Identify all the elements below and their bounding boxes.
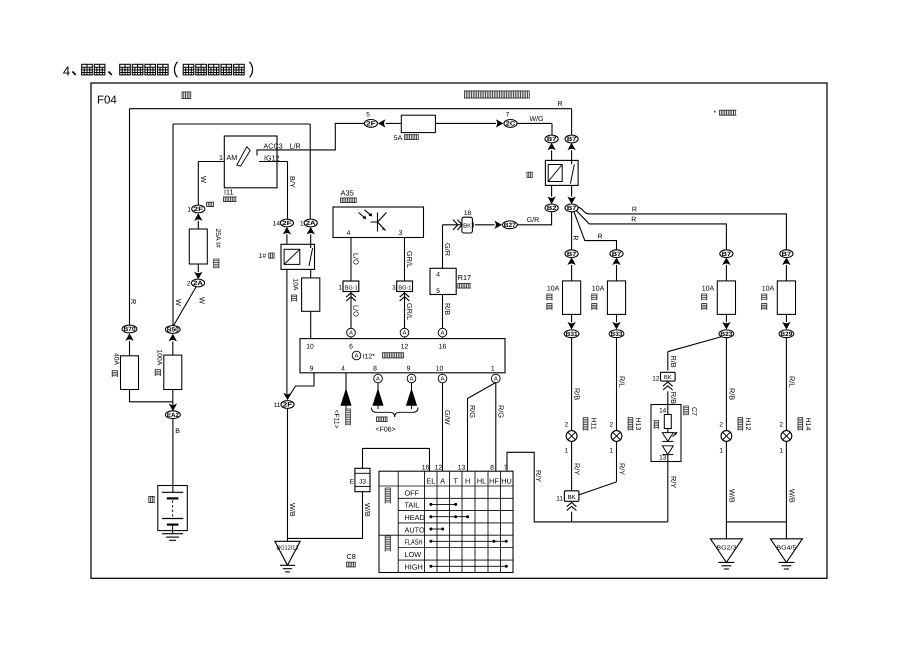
wire W loop top xyxy=(173,123,310,125)
svg-text:7: 7 xyxy=(504,464,508,471)
svg-text:G/R: G/R xyxy=(527,216,539,224)
light sensor A35 xyxy=(333,207,424,238)
joint connector 11 BK xyxy=(564,491,579,502)
svg-text:I11: I11 xyxy=(224,188,233,197)
wire col3 W/B to ground xyxy=(725,441,727,538)
svg-text:HU: HU xyxy=(501,476,512,485)
svg-text:2: 2 xyxy=(609,421,613,428)
joint connector 1 BG-1 left xyxy=(343,281,359,292)
headlamp bulb H11 xyxy=(566,431,577,442)
svg-text:100A: 100A xyxy=(155,350,162,366)
svg-text:R: R xyxy=(631,216,636,223)
svg-text:W/G: W/G xyxy=(530,115,544,123)
svg-text:11: 11 xyxy=(556,495,563,502)
connector B7 above fuse col x=726.4 xyxy=(720,250,733,258)
switch contact rows xyxy=(431,503,456,505)
wire 100A to EA2 xyxy=(172,390,174,405)
svg-text:R/L: R/L xyxy=(618,376,627,387)
headlamp bulb H13 xyxy=(611,431,622,442)
wire R/B to lamp H12 xyxy=(725,338,727,431)
svg-text:W/B: W/B xyxy=(288,503,297,517)
svg-text:2: 2 xyxy=(719,421,723,428)
wire ACC3 L/R to 5A fuse xyxy=(257,123,364,155)
svg-text:R/Y: R/Y xyxy=(573,463,582,475)
svg-text:A: A xyxy=(403,330,407,337)
ground below battery xyxy=(162,533,183,535)
svg-text:L/R: L/R xyxy=(290,142,301,151)
svg-text:R/B: R/B xyxy=(573,388,582,400)
connector EA2 xyxy=(166,411,181,419)
svg-text:W/B: W/B xyxy=(787,489,796,503)
svg-text:6: 6 xyxy=(349,344,353,351)
svg-text:9: 9 xyxy=(407,365,411,372)
svg-text:HIGH: HIGH xyxy=(405,563,423,572)
wire R/L to lamp H14 xyxy=(785,338,787,431)
svg-text:BG2/3: BG2/3 xyxy=(716,544,737,551)
wire col2 lamp R/Y to BK xyxy=(616,441,618,482)
wire R/B to lamp H11 xyxy=(571,338,573,431)
svg-text:1: 1 xyxy=(779,447,783,454)
connector B31 xyxy=(564,330,579,338)
svg-text:1#: 1# xyxy=(259,253,267,260)
circled A nodes above I12 xyxy=(347,328,356,337)
headlamp relay box xyxy=(545,160,578,185)
photo sensor symbol xyxy=(359,210,372,219)
label: power-source harness (tiny) xyxy=(182,92,191,100)
svg-text:1: 1 xyxy=(187,207,191,214)
svg-text:C7: C7 xyxy=(690,407,697,416)
svg-text:2A: 2A xyxy=(193,280,203,287)
svg-text:H11: H11 xyxy=(589,418,596,430)
svg-text:R: R xyxy=(597,233,602,240)
svg-text:EL: EL xyxy=(426,476,435,485)
wire C7 to R/Y bus xyxy=(667,462,669,522)
svg-text:12: 12 xyxy=(401,344,409,351)
wire E J3 W/B to ground xyxy=(288,492,363,539)
svg-text:R: R xyxy=(129,299,138,304)
svg-text:2: 2 xyxy=(187,281,191,288)
ground BG4/5 xyxy=(770,539,802,563)
connector 2 2A xyxy=(191,279,204,287)
svg-text:1: 1 xyxy=(719,447,723,454)
svg-text:4: 4 xyxy=(63,63,70,78)
connector B7 above fuse col x=616.5 xyxy=(610,250,623,258)
svg-text:F04: F04 xyxy=(97,95,117,107)
battery xyxy=(158,486,188,531)
svg-text:EA2: EA2 xyxy=(167,412,180,419)
svg-text:R/B: R/B xyxy=(669,392,678,404)
harness arrows F06 at I12 pins 8 9 xyxy=(377,383,379,390)
wire diagonal B23 to BK 12 xyxy=(668,337,722,352)
svg-text:HL: HL xyxy=(477,476,486,485)
svg-text:AM: AM xyxy=(227,153,238,162)
svg-text:10A: 10A xyxy=(292,279,299,292)
svg-text:BG12/13: BG12/13 xyxy=(277,545,300,552)
svg-text:1: 1 xyxy=(219,153,223,162)
wire R down to headlamp relay xyxy=(571,109,573,136)
svg-text:12: 12 xyxy=(652,375,660,382)
svg-text:G/W: G/W xyxy=(443,410,452,425)
svg-text:5: 5 xyxy=(366,112,370,119)
connector B29 xyxy=(779,330,794,338)
svg-text:W: W xyxy=(198,297,207,304)
wire W/B to ground BG12/13 xyxy=(287,409,289,542)
svg-text:9: 9 xyxy=(310,365,314,372)
fuse 25A I# xyxy=(189,229,207,264)
svg-text:R/Y: R/Y xyxy=(669,476,678,488)
svg-text:B7: B7 xyxy=(612,251,622,258)
label: instrument panel harness vs front harness (tiny) xyxy=(465,91,530,99)
svg-text:R/B: R/B xyxy=(669,356,678,368)
svg-text:J3: J3 xyxy=(359,478,366,485)
wire G/R down to R17 pin 4 xyxy=(442,225,444,268)
R wire fanout from B7 xyxy=(571,212,573,250)
connector B70 xyxy=(122,325,137,333)
svg-text:R/G: R/G xyxy=(468,405,477,418)
svg-text:B7: B7 xyxy=(782,251,792,258)
outer border frame F04 xyxy=(91,83,827,578)
svg-text:GR/L: GR/L xyxy=(405,251,414,268)
connector 5 2F to 5A fuse xyxy=(364,120,377,128)
joint connector 18 BK xyxy=(472,222,474,227)
svg-text:H14: H14 xyxy=(804,418,811,431)
wire A35 pin4 L/O to joint BG xyxy=(350,238,352,282)
wire 5A to 2C xyxy=(435,122,496,124)
svg-text:11: 11 xyxy=(274,402,281,409)
fuse 100A main xyxy=(164,355,182,389)
svg-text:2: 2 xyxy=(565,421,569,428)
svg-text:16: 16 xyxy=(422,464,430,471)
svg-text:A: A xyxy=(410,376,414,383)
joint connector 3 BG-1 right xyxy=(397,281,413,292)
wire col4 W/B to ground xyxy=(785,441,787,538)
fuse 10A headlamp col x=616.5 xyxy=(607,281,625,315)
connector B7 relay switch top xyxy=(565,135,578,143)
headlamp bulb H14 xyxy=(781,431,792,442)
connector B7 above fuse col x=571.6 xyxy=(565,250,578,258)
svg-text:W: W xyxy=(174,299,183,306)
wire R/L to lamp H13 xyxy=(616,338,618,431)
svg-text:R/B: R/B xyxy=(443,303,452,315)
connector B23 xyxy=(719,330,734,338)
svg-text:A35: A35 xyxy=(341,189,354,198)
label: headlamp relay (tiny) xyxy=(527,172,533,178)
connector 1 2F xyxy=(192,205,205,213)
svg-text:3: 3 xyxy=(399,230,403,237)
svg-text:ACC3: ACC3 xyxy=(264,142,283,151)
svg-text:18: 18 xyxy=(464,210,472,217)
svg-text:R: R xyxy=(557,101,562,108)
svg-text:E: E xyxy=(350,478,355,485)
connector B50 xyxy=(165,326,180,334)
svg-text:T: T xyxy=(453,476,458,485)
wire G/R to DRL unit chain xyxy=(517,212,552,225)
label: ignition switch (tiny) xyxy=(224,197,237,203)
svg-text:L/O: L/O xyxy=(352,305,361,317)
svg-text:B27: B27 xyxy=(504,222,517,229)
connector B7 above fuse col x=786.4 xyxy=(780,250,793,258)
svg-text:B7: B7 xyxy=(567,205,577,212)
svg-text:W/B: W/B xyxy=(363,503,372,517)
svg-text:2F: 2F xyxy=(283,402,293,409)
svg-text:13: 13 xyxy=(659,455,667,462)
svg-text:B29: B29 xyxy=(780,331,793,338)
svg-text:HF: HF xyxy=(489,476,499,485)
svg-text:BK: BK xyxy=(664,374,672,381)
svg-text:10A: 10A xyxy=(702,285,715,292)
svg-text:5A: 5A xyxy=(394,135,403,142)
svg-text:<F06>: <F06> xyxy=(376,427,396,434)
svg-text:40A: 40A xyxy=(112,353,119,366)
svg-text:TAIL: TAIL xyxy=(405,501,420,510)
daytime light controller R17 xyxy=(430,268,456,294)
wire to fuse 25A xyxy=(197,221,199,229)
connector 1 2A (relay switch) xyxy=(304,219,317,227)
connector 11 2F bottom xyxy=(283,393,291,401)
svg-text:14: 14 xyxy=(273,221,281,228)
fuse 10A headlamp col x=726.4 xyxy=(717,281,735,315)
svg-text:*: * xyxy=(714,110,717,117)
svg-text:1: 1 xyxy=(338,285,342,292)
joint connector E J3 xyxy=(355,468,370,491)
connector 14 2F (relay coil) xyxy=(280,219,293,227)
ignition switch I11 box xyxy=(224,136,277,188)
label: battery (tiny) xyxy=(149,496,155,503)
wire R/G I12 pin1 to switch HF xyxy=(495,383,497,472)
relay 1# (taillight relay) xyxy=(281,244,315,269)
wire R/G diagonal to switch H xyxy=(468,383,496,399)
svg-text:R/Y: R/Y xyxy=(534,470,543,482)
wire 40A to EA2 xyxy=(130,390,173,402)
svg-text:10: 10 xyxy=(436,365,444,372)
headlamp bulb H12 xyxy=(721,431,732,442)
svg-text:1: 1 xyxy=(491,365,495,372)
svg-text:A: A xyxy=(349,330,353,337)
svg-text:BG4/5: BG4/5 xyxy=(776,544,797,551)
wire relay switch to fuse 10A xyxy=(310,269,312,278)
connector B33 xyxy=(609,330,624,338)
connector B7 relay coil top xyxy=(545,135,558,143)
svg-text:B/Y: B/Y xyxy=(288,176,297,188)
wire relay coil to 2F pin 11 xyxy=(286,269,288,393)
wire R/B R17 to I12 pin16 xyxy=(442,295,444,339)
svg-text:R/B: R/B xyxy=(728,388,737,400)
svg-text:4: 4 xyxy=(436,272,440,279)
svg-text:R17: R17 xyxy=(458,273,471,282)
headlamp control unit I12 xyxy=(300,339,505,373)
svg-text:W/B: W/B xyxy=(727,489,736,503)
svg-text:W: W xyxy=(199,176,208,183)
svg-text:A: A xyxy=(494,376,498,383)
connector 7 2C xyxy=(504,120,517,128)
svg-text:BG-1: BG-1 xyxy=(345,284,358,291)
fuse 10A tail xyxy=(302,278,320,311)
svg-text:A: A xyxy=(441,330,445,337)
svg-text:H12: H12 xyxy=(744,418,751,431)
svg-text:R: R xyxy=(571,236,578,241)
svg-text:R: R xyxy=(632,206,637,213)
ground bridge wire xyxy=(726,521,786,523)
wire IG12 B/Y down xyxy=(259,161,288,163)
svg-text:A: A xyxy=(441,376,445,383)
wire L/O to I12 pin 6 xyxy=(350,292,352,339)
svg-text:BK: BK xyxy=(463,222,471,229)
R/Y bus to switch HU xyxy=(507,452,668,522)
svg-text:B33: B33 xyxy=(611,331,624,338)
svg-text:5: 5 xyxy=(436,288,440,295)
svg-text:4: 4 xyxy=(347,230,351,237)
svg-text:2A: 2A xyxy=(306,220,316,227)
svg-text:A: A xyxy=(355,353,359,360)
svg-text:1: 1 xyxy=(609,447,613,454)
svg-text:B31: B31 xyxy=(566,331,579,338)
svg-text:2F: 2F xyxy=(282,220,292,227)
wire col1 lamp to joint BK 11 xyxy=(571,441,573,490)
ground BG2/3 xyxy=(710,539,742,563)
svg-text:3: 3 xyxy=(392,285,396,292)
connector B7 relay right output xyxy=(565,204,578,212)
fuse 10A headlamp col x=786.4 xyxy=(777,281,795,315)
svg-text:HEAD: HEAD xyxy=(405,513,425,522)
svg-text:12: 12 xyxy=(435,464,443,471)
svg-text:BG-1: BG-1 xyxy=(398,284,411,291)
svg-text:10A: 10A xyxy=(547,285,560,292)
harness arrow F11 at I12 pin 4 xyxy=(345,373,347,390)
svg-text:10: 10 xyxy=(306,344,314,351)
wire R top bus from battery loop xyxy=(130,108,572,110)
wire G/W I12 pin10 to switch xyxy=(442,383,444,472)
circled A nodes below I12 xyxy=(374,374,383,383)
headlamp switch table xyxy=(379,471,513,572)
svg-text:A: A xyxy=(376,376,380,383)
svg-text:FLASH: FLASH xyxy=(405,538,423,547)
wire A35 pin3 GR/L to joint BG xyxy=(404,238,406,282)
svg-text:C8: C8 xyxy=(347,552,356,561)
svg-text:25A I#: 25A I# xyxy=(214,229,221,248)
svg-text:H: H xyxy=(465,476,470,485)
connector B27 xyxy=(502,221,517,229)
position lamp unit C7 with LED xyxy=(651,405,681,462)
svg-text:R/Y: R/Y xyxy=(618,463,627,475)
svg-text:B50: B50 xyxy=(167,327,180,334)
svg-text:R/L: R/L xyxy=(788,376,797,387)
fuse 10A headlamp col x=571.6 xyxy=(563,281,581,315)
svg-text:2C: 2C xyxy=(506,121,516,128)
svg-text:I12*: I12* xyxy=(363,353,376,360)
svg-text:2: 2 xyxy=(779,421,783,428)
wire AM terminal to connector 2F pin1 xyxy=(198,161,224,163)
wire E J3 to switch EL pin16 xyxy=(363,448,430,471)
svg-text:10A: 10A xyxy=(762,285,775,292)
joint connector 12 BK xyxy=(661,372,676,381)
svg-text:8: 8 xyxy=(373,365,377,372)
connector B2 relay left output xyxy=(545,204,558,212)
wire diagonal 2A to B50 xyxy=(174,287,197,326)
svg-text:B2: B2 xyxy=(547,205,557,212)
svg-text:B7: B7 xyxy=(547,136,557,143)
switch table left labels (tiny) xyxy=(385,488,391,504)
relay outputs to connectors xyxy=(551,185,553,196)
svg-text:16: 16 xyxy=(439,344,447,351)
label tiny right of 2F xyxy=(207,202,215,207)
svg-text:13: 13 xyxy=(458,464,466,471)
svg-text:2F: 2F xyxy=(194,206,204,213)
svg-text:4: 4 xyxy=(341,365,345,372)
svg-text:14: 14 xyxy=(659,407,667,414)
wire GR/L to I12 pin 12 xyxy=(404,292,406,339)
svg-text:R/G: R/G xyxy=(497,405,506,418)
fuse 5A xyxy=(401,115,435,132)
svg-text:2F: 2F xyxy=(366,121,376,128)
svg-text:B23: B23 xyxy=(720,331,733,338)
svg-text:1: 1 xyxy=(300,221,304,228)
wire fuse to 2A xyxy=(197,264,199,272)
svg-text:L/O: L/O xyxy=(352,253,361,265)
svg-text:1: 1 xyxy=(565,447,569,454)
svg-text:B: B xyxy=(175,428,180,435)
svg-text:GR/L: GR/L xyxy=(405,303,414,320)
svg-text:<F11>: <F11> xyxy=(333,410,340,429)
svg-text:B7: B7 xyxy=(567,251,577,258)
svg-text:LOW: LOW xyxy=(405,550,422,559)
svg-text:B70: B70 xyxy=(124,326,137,333)
svg-text:B7: B7 xyxy=(567,136,577,143)
svg-text:AUTO: AUTO xyxy=(405,525,425,534)
wire EA2 to battery xyxy=(172,419,174,493)
svg-text:BK: BK xyxy=(568,494,576,501)
wire W/G to headlamp relay xyxy=(518,122,553,124)
svg-text:G/R: G/R xyxy=(443,243,452,256)
svg-text:OFF: OFF xyxy=(405,488,420,497)
wire I12 pin9 to 2F pin 11 xyxy=(288,373,314,399)
svg-text:B7: B7 xyxy=(722,251,732,258)
svg-text:A: A xyxy=(440,476,445,485)
ground BG12/13 xyxy=(275,541,300,565)
svg-text:8: 8 xyxy=(490,464,494,471)
svg-text:10A: 10A xyxy=(592,285,605,292)
fuse 40A main xyxy=(121,356,139,390)
svg-text:7: 7 xyxy=(506,112,510,119)
svg-text:H13: H13 xyxy=(634,418,641,431)
